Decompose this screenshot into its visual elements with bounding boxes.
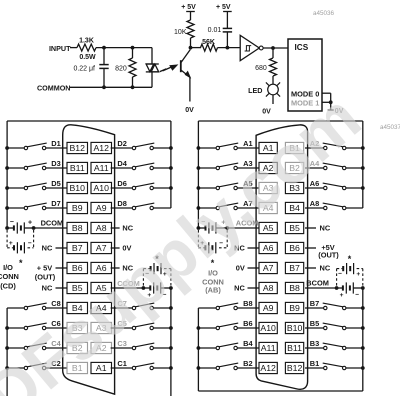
pin B5 [67,282,88,293]
connector shell CONN AB outline [256,125,308,389]
wire left bus B-side [197,308,199,391]
svg-text:LED: LED [248,86,262,95]
wire BCOM from pin [305,287,337,289]
svg-text:D6: D6 [117,179,126,188]
wire D1 to pin [46,147,67,149]
svg-text:B10: B10 [70,183,86,193]
wire pin stub row 7 right [111,267,120,269]
wire top rail AB [198,120,362,122]
node junction D4 [169,166,173,170]
wire pin to switch C5 [111,327,133,329]
switch C4 [5,346,9,350]
switch C8 [7,307,24,309]
wire R1.3K to node [96,47,152,49]
pin B7 (AB) [285,262,303,273]
svg-text:B5: B5 [310,319,319,328]
pin A8 (AB) [259,282,277,293]
svg-text:C1: C1 [117,359,126,368]
node junction C7 [169,306,173,310]
svg-text:B11: B11 [287,343,302,353]
wire D3 to pin [46,167,67,169]
wire pin to switch B3 (AB) [305,347,324,349]
svg-text:+: + [340,292,344,299]
svg-text:680: 680 [255,65,267,72]
opto-triac emitter (diac symbol) [146,63,159,65]
battery BCOM alternate (dashed) [336,269,338,286]
node junction D6 [169,186,173,190]
svg-text:B9: B9 [72,203,83,213]
wire A1 to pin (AB) [237,147,259,149]
wire pin stub row 6 right [111,247,120,249]
wire pin to switch D4 [111,167,133,169]
svg-text:NC: NC [234,283,245,292]
svg-text:A11: A11 [94,163,109,173]
switch C7 [132,306,135,309]
pin A11 [91,162,112,173]
pin A1 [91,362,112,373]
wire DCOM to pin [34,227,67,229]
wire right bus D-side [170,121,172,208]
pin A3 [91,322,112,333]
wire pin stub row 7 left (AB) [248,267,260,269]
pin B9 (AB) [285,302,303,313]
LED indicator [272,76,274,84]
node junction 820 top [131,46,135,50]
svg-text:A9: A9 [96,203,107,213]
op-amp U1 Schmitt inverter [240,35,259,60]
pin A4 (AB) [259,202,277,213]
svg-text:(CD): (CD) [0,281,16,290]
node junction B3 (AB) [361,346,365,350]
wire ACOM to pin [227,227,259,229]
wire right bus B-side [362,288,364,391]
wire bottom rail AB [198,390,362,392]
switch B1 (AB) [324,366,327,369]
node LED branch junction [271,46,275,50]
wire pin stub row 6 left [56,247,68,249]
switch D2 [132,146,135,149]
switch C2 [5,366,9,370]
svg-text:D1: D1 [51,139,60,148]
switch D6 [132,186,135,189]
switch D1 [5,146,9,150]
pin B12 [67,142,88,153]
node junction C5 [169,326,173,330]
svg-text:0V: 0V [262,109,271,116]
svg-text:−: − [10,219,14,226]
battery ACOM alternate (dashed) [197,230,199,248]
switch C6 [5,326,9,330]
svg-text:BCOM: BCOM [306,279,329,288]
wire 56K to cap node [218,47,241,49]
wire opto branch [151,48,153,65]
transistor Q1 phototransistor [180,60,182,72]
svg-text:D5: D5 [51,179,60,188]
wire pin stub row 5 right (AB) [305,227,316,229]
svg-text:−: − [355,291,359,298]
node junction B5 (AB) [361,326,365,330]
opto light coupling arrow [160,69,166,72]
switch B5 (AB) [324,326,327,329]
wire pin to switch C7 [111,307,133,309]
pin B2 (AB) [285,162,303,173]
pin A12 (AB) [259,362,277,373]
pin A2 [91,342,112,353]
svg-text:*: * [348,254,352,264]
svg-text:0V: 0V [236,263,245,272]
svg-text:−: − [338,271,342,278]
svg-text:*: * [19,258,23,268]
pin A6 (AB) [259,242,277,253]
svg-text:D7: D7 [51,199,60,208]
pin A10 (AB) [259,322,277,333]
node mode junction [329,100,333,104]
svg-text:A9: A9 [263,303,274,313]
svg-text:A6: A6 [263,243,274,253]
wire left bus C-side [6,308,8,396]
battery CCOM alternate (dashed) [142,269,144,286]
svg-text:B5: B5 [289,223,300,233]
pin B6 [67,262,88,273]
wire A5 to pin (AB) [237,187,259,189]
pin B6 (AB) [285,242,303,253]
switch A4 (AB) [324,166,327,169]
node junction B7 (AB) [361,306,365,310]
svg-text:1.3K: 1.3K [79,37,94,44]
svg-text:B6: B6 [72,263,83,273]
resistor 1.3K [77,44,96,51]
svg-text:NC: NC [42,283,53,292]
node junction A4 (AB) [361,166,365,170]
svg-text:B10: B10 [287,323,303,333]
wire mode tie to 0V [330,93,332,110]
switch D4 [132,166,135,169]
capacitor 0.01 [223,27,232,29]
wire pin to switch A8 (AB) [305,207,324,209]
svg-text:B1: B1 [310,359,319,368]
switch C3 [132,346,135,349]
svg-text:INPUT: INPUT [49,44,71,53]
svg-text:B7: B7 [72,243,83,253]
svg-text:ICS: ICS [295,43,309,52]
wire C8 to pin [46,307,67,309]
svg-text:+ 5V: + 5V [181,4,196,11]
pin B5 (AB) [285,222,303,233]
wire C2 to pin [46,367,67,369]
svg-text:B8: B8 [289,283,300,293]
svg-text:A7: A7 [96,243,107,253]
pin B10 (AB) [285,322,303,333]
battery ACOM [197,226,201,230]
svg-text:B9: B9 [289,303,300,313]
pin B3 [67,322,88,333]
switch B2 (AB) [197,366,201,370]
switch A3 (AB) [197,166,201,170]
pin A5 [91,282,112,293]
svg-text:(OUT): (OUT) [35,272,56,281]
pin A7 (AB) [259,262,277,273]
svg-text:NC: NC [122,223,133,232]
pin A4 [91,302,112,313]
wire pin to switch D8 [111,207,133,209]
wire left bus A-side [197,121,199,228]
wire top rail CD [7,120,171,122]
battery CCOM [142,286,146,290]
svg-text:B3: B3 [310,339,319,348]
svg-text:+ 5V: + 5V [216,4,231,11]
svg-text:+: + [28,220,32,227]
pin A7 [91,242,112,253]
svg-text:B12: B12 [287,363,303,373]
switch A6 (AB) [324,186,327,189]
pin A8 [91,222,112,233]
svg-text:0V: 0V [185,107,194,114]
wire left bus D-side [6,121,8,228]
switch A2 (AB) [324,146,327,149]
pin B10 [67,182,88,193]
wire pin to switch D6 [111,187,133,189]
wire emitter to 0V [189,77,191,101]
wire CCOM from pin [111,287,144,289]
wire B8 to pin (AB) [237,307,259,309]
wire B6 to pin (AB) [237,327,259,329]
pin B11 [67,162,88,173]
svg-text:B7: B7 [310,299,319,308]
pin A10 [91,182,112,193]
wire pin stub row 6 left (AB) [248,247,260,249]
wire pin to switch B1 (AB) [305,367,324,369]
pin A6 [91,262,112,273]
svg-text:D8: D8 [117,199,126,208]
wire pin to switch C1 [111,367,133,369]
svg-text:(OUT): (OUT) [318,250,339,259]
wire pin to switch D2 [111,147,133,149]
battery BCOM [335,286,339,290]
svg-text:820: 820 [115,65,127,72]
pin A1 (AB) [259,142,277,153]
wire pin to switch A6 (AB) [305,187,324,189]
svg-text:A12: A12 [94,143,110,153]
svg-text:B7: B7 [289,263,300,273]
capacitor 0.22uF [103,48,105,65]
pin B7 [67,242,88,253]
svg-text:CONN: CONN [0,272,19,281]
wire MODE 1 out [322,101,331,103]
svg-text:(AB): (AB) [205,286,221,295]
pin A5 (AB) [259,222,277,233]
svg-text:A7: A7 [263,263,274,273]
pin A3 (AB) [259,182,277,193]
svg-text:B6: B6 [289,243,300,253]
pin B4 (AB) [285,202,303,213]
switch B8 (AB) [198,307,216,309]
svg-text:B12: B12 [70,143,86,153]
svg-text:10K: 10K [174,29,187,36]
switch B4 (AB) [197,346,201,350]
switch D5 [5,186,9,190]
node junction D2 [169,146,173,150]
svg-text:B8: B8 [243,299,252,308]
svg-text:A10: A10 [94,183,110,193]
svg-text:a45036: a45036 [313,10,335,17]
svg-text:0.5W: 0.5W [79,54,96,61]
switch A5 (AB) [197,186,201,190]
switch D8 [132,206,135,209]
wire INPUT to R 1.3K [70,47,77,49]
svg-text:A12: A12 [260,363,276,373]
wire inverter output to ICS [263,47,288,49]
wire COMMON rail [70,86,152,88]
pin B1 [67,362,88,373]
svg-text:A11: A11 [261,343,276,353]
wire pin to switch B5 (AB) [305,327,324,329]
svg-text:B4: B4 [243,339,253,348]
node junction A6 (AB) [361,186,365,190]
svg-text:56K: 56K [202,39,215,46]
svg-text:A8: A8 [263,283,274,293]
svg-text:A8: A8 [310,199,319,208]
svg-text:COMMON: COMMON [37,83,71,92]
node junction cap 0.22 [102,46,106,50]
wire B2 to pin (AB) [237,367,259,369]
svg-text:A10: A10 [260,323,276,333]
svg-text:0.22 μf: 0.22 μf [73,66,95,73]
svg-text:DCOM: DCOM [41,218,64,227]
wire pin stub row 7 right (AB) [305,267,316,269]
wire D5 to pin [46,187,67,189]
switch C5 [132,326,135,329]
resistor 820 [132,48,134,58]
node junction A2 (AB) [361,146,365,150]
pin A2 (AB) [259,162,277,173]
wire pin stub row 5 right [111,227,120,229]
wire C6 to pin [46,327,67,329]
svg-text:B11: B11 [70,163,85,173]
wire A3 to pin (AB) [237,167,259,169]
node collector junction [189,46,193,50]
connector shell CONN CD outline [63,125,115,394]
wire D7 to pin [46,207,67,209]
node junction cap bottom [102,85,106,89]
pin B12 (AB) [285,362,303,373]
switch D3 [5,166,9,170]
node junction 820 bottom [131,85,135,89]
wire B4 to pin (AB) [237,347,259,349]
svg-text:+: + [9,240,13,247]
switch B3 (AB) [324,346,327,349]
wire pin to switch C3 [111,347,133,349]
svg-text:NC: NC [42,243,53,252]
pin B4 [67,302,88,313]
node cap 0.01 junction [226,46,230,50]
svg-text:D2: D2 [117,139,126,148]
node junction B1 (AB) [361,366,365,370]
switch B7 (AB) [324,306,327,309]
resistor 10K [187,20,194,38]
resistor 680 [272,48,274,58]
wire pin stub row 7 left [56,267,68,269]
wire pin stub row 6 right (AB) [305,247,316,249]
pin B8 [67,222,88,233]
svg-text:I/O: I/O [3,263,13,272]
wire LED to 0V [272,95,274,104]
pin A11 (AB) [259,342,277,353]
svg-text:NC: NC [320,223,331,232]
svg-text:D4: D4 [117,159,127,168]
switch D7 [5,206,9,210]
wire right bus C-side [170,288,172,396]
svg-text:A8: A8 [96,223,107,233]
wire pin to switch A2 (AB) [305,147,324,149]
wire A7 to pin (AB) [237,207,259,209]
pin B9 [67,202,88,213]
pin A9 (AB) [259,302,277,313]
svg-text:D3: D3 [51,159,60,168]
pin B8 (AB) [285,282,303,293]
svg-text:+: + [356,271,360,278]
wire C4 to pin [46,347,67,349]
pin B3 (AB) [285,182,303,193]
pin B11 (AB) [285,342,303,353]
wire pin stub row 8 left [56,287,68,289]
svg-text:−: − [28,240,32,247]
svg-text:B8: B8 [72,223,83,233]
pin A9 [91,202,112,213]
switch A7 (AB) [197,206,201,210]
node junction C3 [169,346,173,350]
wire pin stub row 8 left (AB) [248,287,260,289]
svg-text:B2: B2 [243,359,252,368]
wire collector node to 56K [191,47,202,49]
pin A12 [91,142,112,153]
switch B6 (AB) [197,326,201,330]
battery DCOM [5,226,9,230]
wire pin to switch B7 (AB) [305,307,324,309]
svg-text:+ 5V: + 5V [37,264,52,273]
svg-text:B6: B6 [243,319,252,328]
svg-text:NC: NC [320,263,331,272]
wire MODE 0 out [322,92,331,94]
svg-text:a45037: a45037 [380,124,400,131]
switch A8 (AB) [324,206,327,209]
switch C1 [132,366,135,369]
resistor 56K [201,44,218,51]
op-amp U2 ICS box [288,39,322,111]
pin B1 (AB) [285,142,303,153]
switch A1 (AB) [197,146,201,150]
node junction C1 [169,366,173,370]
wire pin to switch A4 (AB) [305,167,324,169]
battery DCOM alternate (dashed) [6,230,8,248]
pin B2 [67,342,88,353]
wire right bus A-side [362,121,364,208]
svg-text:0.01: 0.01 [208,27,222,34]
